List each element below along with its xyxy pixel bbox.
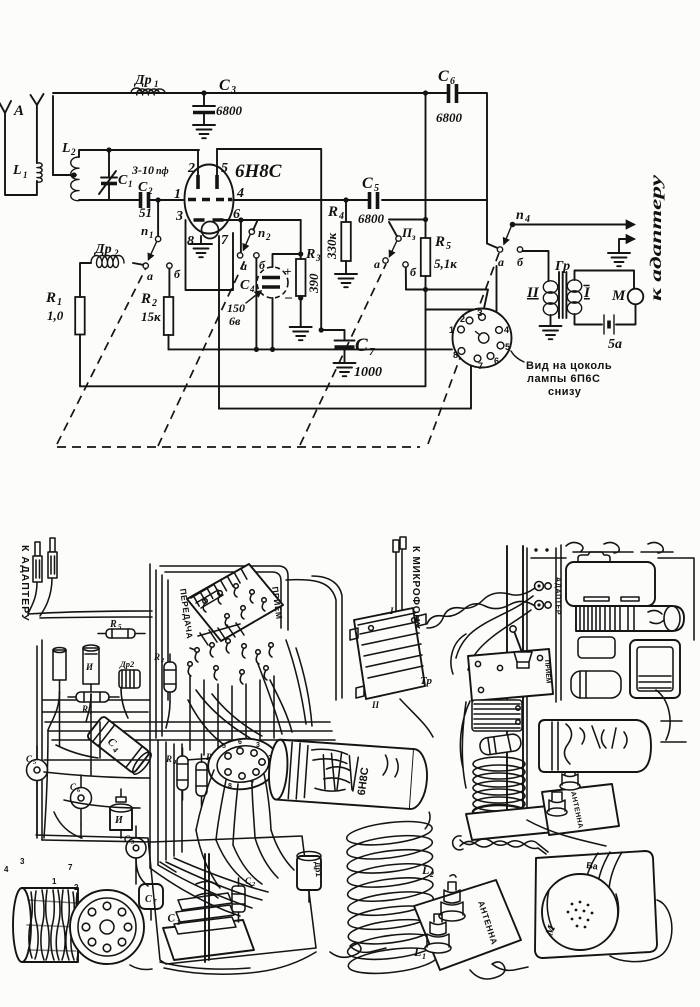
svg-text:6: 6 xyxy=(238,739,242,746)
trimmer C1 xyxy=(99,150,169,200)
wire rail R1-R5 xyxy=(80,290,426,386)
earphone M xyxy=(611,288,643,304)
svg-text:8: 8 xyxy=(453,350,458,360)
box far right xyxy=(630,640,680,698)
wire rail heater xyxy=(219,362,471,409)
battery B 5a xyxy=(604,315,622,352)
svg-text:6800: 6800 xyxy=(216,103,243,118)
wire M loop right xyxy=(610,900,672,962)
svg-text:3: 3 xyxy=(20,857,25,866)
svg-text:5: 5 xyxy=(374,183,379,194)
tube 6N8S pictorial xyxy=(267,739,429,810)
capacitor tube cap B (I) xyxy=(83,645,99,694)
adapter plug 2 xyxy=(48,538,57,578)
wire pin4 line xyxy=(233,199,487,201)
socket flange 6P6S xyxy=(70,890,144,964)
wire pin5 anode rail xyxy=(217,149,321,330)
svg-text:Гр: Гр xyxy=(554,259,570,274)
svg-text:а: а xyxy=(147,269,153,283)
right misc wires xyxy=(451,634,670,846)
svg-text:II: II xyxy=(371,700,380,710)
wire adapter pair run xyxy=(28,611,152,618)
svg-text:L: L xyxy=(61,141,71,156)
wire antenna plate tail xyxy=(470,962,528,979)
svg-text:5: 5 xyxy=(118,623,122,631)
svg-text:R: R xyxy=(305,247,315,262)
svg-text:n: n xyxy=(516,208,524,223)
label socket view xyxy=(511,351,612,398)
toggle switch xyxy=(510,626,532,668)
transformer Gr winding I xyxy=(567,280,591,314)
resistor R4 pictorial xyxy=(165,748,188,800)
svg-text:б: б xyxy=(410,265,417,279)
wire jack sweep extra xyxy=(456,596,533,670)
svg-text:C: C xyxy=(219,77,230,94)
wire Gr-I to M xyxy=(575,271,635,290)
switch plate xyxy=(187,564,283,641)
svg-text:Др2: Др2 xyxy=(119,659,135,669)
choke Dr1 pictorial xyxy=(297,852,323,903)
chassis mid lines xyxy=(36,752,316,964)
wires mid density xyxy=(188,640,312,752)
tube 6P6S pictorial xyxy=(13,888,79,962)
node pin1 xyxy=(156,197,161,202)
ground under tube xyxy=(190,244,212,257)
svg-text:2: 2 xyxy=(70,147,76,157)
svg-text:2: 2 xyxy=(147,186,153,196)
wire pin7 down xyxy=(218,236,220,409)
solenoid coil right xyxy=(473,757,525,819)
tube 6P6S hatched right xyxy=(576,606,684,631)
svg-text:6800: 6800 xyxy=(358,211,385,226)
resistor R5 xyxy=(421,93,457,290)
bracket plate xyxy=(468,649,553,701)
wire to socket pin3 xyxy=(406,290,488,314)
svg-text:C: C xyxy=(362,175,373,192)
node R5 bottom xyxy=(423,287,428,292)
coil L2 spiral xyxy=(331,812,449,978)
arrow adapter-gnd xyxy=(619,239,634,252)
svg-text:б: б xyxy=(174,267,181,281)
node top-C3 xyxy=(201,90,206,95)
node R5 top xyxy=(423,217,428,222)
microphone unit M box xyxy=(535,851,657,958)
wire R1 bottom xyxy=(79,335,81,387)
transformer Gr winding II xyxy=(526,281,558,315)
svg-text:Др: Др xyxy=(93,242,112,257)
wire n4b to Gr xyxy=(523,251,549,281)
svg-text:1000: 1000 xyxy=(354,365,382,380)
wire bundle verticals xyxy=(150,564,168,740)
svg-text:7: 7 xyxy=(369,346,375,358)
svg-text:3: 3 xyxy=(175,209,183,224)
svg-text:АДАПТЕР: АДАПТЕР xyxy=(554,577,561,615)
neon lamp I pictorial xyxy=(110,789,132,830)
wire to socket pin4 xyxy=(496,266,498,313)
wire pin8 ground stub xyxy=(200,236,202,243)
svg-text:б: б xyxy=(517,255,524,269)
svg-text:R: R xyxy=(45,290,56,306)
svg-text:2: 2 xyxy=(74,883,79,892)
svg-text:R: R xyxy=(109,619,117,630)
socket view circle xyxy=(449,308,512,371)
wire L2 top rail xyxy=(79,150,199,157)
PICTORIAL-BOTTOM xyxy=(4,537,694,979)
capacitor C3 xyxy=(193,77,243,124)
insulator right 2 xyxy=(547,792,567,816)
capacitor cylinder right xyxy=(479,733,522,756)
svg-text:8: 8 xyxy=(228,783,232,790)
motion dashes xyxy=(661,721,686,742)
svg-text:1: 1 xyxy=(52,877,57,886)
switch n4 xyxy=(497,208,634,269)
svg-text:8: 8 xyxy=(187,234,194,249)
hatch strip 2 xyxy=(198,623,244,645)
wire extra left runs xyxy=(44,722,150,838)
transformer Tr xyxy=(350,606,432,710)
node R4 top xyxy=(343,197,348,202)
svg-text:C: C xyxy=(355,335,368,356)
svg-text:Др1: Др1 xyxy=(313,862,323,878)
svg-text:4: 4 xyxy=(249,284,255,294)
wire pin6 to n2a xyxy=(240,220,242,252)
wires bottom mid density xyxy=(196,830,294,888)
resistor R2 xyxy=(140,291,173,335)
svg-text:5: 5 xyxy=(221,161,228,176)
svg-text:С: С xyxy=(70,782,77,792)
panel clips top xyxy=(566,542,673,553)
svg-text:390: 390 xyxy=(306,273,321,294)
wire Tr tail xyxy=(400,699,433,737)
svg-text:лампы 6П6С: лампы 6П6С xyxy=(527,373,600,385)
base plate right coil xyxy=(466,806,554,840)
svg-text:15к: 15к xyxy=(141,309,161,324)
insulator right 1 xyxy=(560,766,580,790)
wire twisted pair to M xyxy=(460,839,548,854)
svg-text:2: 2 xyxy=(265,232,271,242)
svg-text:2: 2 xyxy=(113,248,119,258)
wire curl at bracket xyxy=(453,836,463,850)
svg-text:II: II xyxy=(526,285,540,301)
jack pair xyxy=(535,582,552,610)
svg-text:з: з xyxy=(411,232,416,242)
wire bottom curl xyxy=(330,943,386,957)
wires mid left xyxy=(48,688,170,730)
svg-text:З: З xyxy=(477,308,483,318)
svg-text:6800: 6800 xyxy=(436,110,463,125)
tube 6N8S right view xyxy=(539,720,651,772)
svg-text:C: C xyxy=(118,173,128,188)
wire top rail xyxy=(53,93,498,248)
wire B-plus to socket xyxy=(426,309,491,311)
svg-text:3: 3 xyxy=(230,85,236,96)
tube socket 6N8S left view xyxy=(205,734,281,793)
svg-text:+: + xyxy=(284,264,291,279)
svg-text:2: 2 xyxy=(151,298,157,309)
wire plug leads xyxy=(28,578,52,616)
svg-text:C: C xyxy=(240,278,250,293)
twisted wire from jacks xyxy=(427,588,535,628)
svg-text:И: И xyxy=(114,815,124,826)
svg-text:1: 1 xyxy=(149,230,154,240)
wire C4 plus xyxy=(273,254,301,267)
svg-text:к адаптеру: к адаптеру xyxy=(648,174,665,301)
svg-text:3-10: 3-10 xyxy=(131,163,154,177)
dashed gang line 1 xyxy=(57,268,146,444)
svg-text:1,0: 1,0 xyxy=(47,308,64,323)
svg-text:1: 1 xyxy=(174,187,181,202)
svg-text:1: 1 xyxy=(23,170,28,180)
tube grid dashes xyxy=(188,198,232,202)
dashed gang baseline xyxy=(57,446,420,448)
svg-text:4: 4 xyxy=(4,865,9,874)
node R3 bottom xyxy=(298,295,303,300)
capacitor C7 pictorial xyxy=(139,884,163,909)
wire pin6 to R3 xyxy=(224,219,301,221)
svg-text:М: М xyxy=(611,288,626,304)
svg-text:C: C xyxy=(138,180,148,195)
svg-text:I: I xyxy=(583,285,591,301)
tube anode bars xyxy=(198,175,217,189)
mid boxes right xyxy=(578,637,615,658)
tube U1 6N8S envelope xyxy=(185,165,234,234)
svg-text:150: 150 xyxy=(227,301,245,315)
wire n1b to R2 xyxy=(168,268,170,297)
svg-text:2: 2 xyxy=(460,314,465,324)
antenna plate right xyxy=(542,784,619,835)
wires from socket down xyxy=(196,770,271,845)
svg-text:а: а xyxy=(498,255,504,269)
chassis bottom edges xyxy=(130,952,316,974)
svg-text:6: 6 xyxy=(450,76,455,87)
capacitor C7 xyxy=(321,330,382,380)
capacitor C2 pictorial xyxy=(232,876,256,922)
svg-text:1: 1 xyxy=(422,952,426,961)
svg-text:6: 6 xyxy=(494,356,499,366)
svg-text:5: 5 xyxy=(222,743,226,750)
svg-text:R: R xyxy=(165,754,172,764)
svg-text:I: I xyxy=(389,606,394,616)
svg-text:4: 4 xyxy=(504,325,509,335)
wire R2 bottom xyxy=(168,335,170,349)
battery box right top xyxy=(534,548,655,606)
capacitor C6 xyxy=(436,68,463,125)
svg-text:С: С xyxy=(26,754,33,764)
svg-text:A: A xyxy=(13,103,24,119)
resistor R1 pictorial xyxy=(68,692,119,716)
transformer Gr core xyxy=(554,259,570,318)
svg-text:7: 7 xyxy=(221,233,229,248)
capacitor C6 pictorial xyxy=(70,775,92,824)
ground under R4 xyxy=(335,274,357,287)
svg-text:L: L xyxy=(413,945,421,959)
SCHEMATIC-TOP xyxy=(0,68,665,447)
switch lugs row1 xyxy=(203,584,267,627)
wire Gr-II to ground xyxy=(550,315,552,325)
antenna plate left xyxy=(414,880,521,970)
capacitor C4 electrolytic xyxy=(227,264,293,328)
tube cathode bars xyxy=(194,218,224,222)
wire rail cathode xyxy=(169,348,453,350)
wire C4 minus down xyxy=(272,298,274,349)
resistor R1 xyxy=(45,290,85,335)
ground under Gr xyxy=(540,326,562,339)
wires upper mid join xyxy=(286,576,342,700)
dashed gang line 3 xyxy=(300,264,386,445)
wire R3 top xyxy=(300,220,302,259)
wire long diagonals mid xyxy=(150,858,268,916)
node top-R5line xyxy=(423,90,428,95)
svg-text:5,1к: 5,1к xyxy=(434,256,457,271)
capacitor C5 xyxy=(358,175,385,226)
svg-text:1: 1 xyxy=(57,297,62,308)
svg-text:51: 51 xyxy=(139,205,152,220)
coil L2 xyxy=(61,141,79,201)
wire n2b down xyxy=(255,258,257,349)
wire Gr-I bottom to battery xyxy=(575,314,603,325)
capacitor C3 pictorial xyxy=(124,826,146,870)
resistor R5 pictorial xyxy=(98,619,145,638)
svg-text:Вид на цоколь: Вид на цоколь xyxy=(526,360,612,372)
svg-text:4: 4 xyxy=(338,211,344,222)
choke Dr2 xyxy=(80,242,143,297)
svg-text:R: R xyxy=(153,652,160,662)
wires row to socket xyxy=(190,676,274,755)
resistor R4 xyxy=(324,200,351,273)
node pin6 xyxy=(238,217,243,222)
capacitor tube cap A xyxy=(53,648,66,693)
microphone wires xyxy=(374,537,406,664)
wire pin2 up xyxy=(198,149,217,175)
variable capacitor C1 xyxy=(163,854,254,962)
switch P3 xyxy=(374,220,426,290)
svg-text:C: C xyxy=(438,68,449,85)
right panel top edges xyxy=(531,558,694,640)
svg-text:1: 1 xyxy=(128,179,133,189)
svg-text:5: 5 xyxy=(505,342,510,352)
svg-text:R: R xyxy=(327,204,338,220)
capacitor C5 pictorial xyxy=(26,746,48,800)
dashed gang line 4 xyxy=(428,253,499,444)
insulator 1 xyxy=(439,875,465,921)
svg-text:4: 4 xyxy=(236,186,244,201)
svg-text:пф: пф xyxy=(156,166,169,177)
ground under C3 xyxy=(193,125,215,138)
svg-text:И: И xyxy=(85,662,94,672)
svg-text:4: 4 xyxy=(524,214,530,225)
svg-text:L: L xyxy=(12,163,22,178)
svg-text:330к: 330к xyxy=(324,233,339,261)
capacitor C4 pictorial big xyxy=(86,715,154,776)
tube heater circle xyxy=(202,222,219,239)
coil L1 xyxy=(12,163,42,182)
svg-text:R: R xyxy=(434,234,445,250)
svg-text:снизу: снизу xyxy=(548,386,582,398)
svg-text:Др: Др xyxy=(133,73,152,88)
svg-text:5: 5 xyxy=(446,241,451,252)
svg-text:R: R xyxy=(81,704,88,714)
wire battery to M xyxy=(616,305,636,325)
wire loop around switch xyxy=(160,566,288,630)
svg-text:6Н8С: 6Н8С xyxy=(235,161,282,182)
svg-text:6в: 6в xyxy=(229,314,241,328)
right panel verticals xyxy=(507,546,523,828)
pin digits xyxy=(4,857,79,892)
svg-text:2: 2 xyxy=(429,870,434,879)
svg-text:1: 1 xyxy=(449,325,454,335)
dashed gang line 2 xyxy=(158,260,245,446)
svg-text:Тр: Тр xyxy=(420,675,432,687)
svg-text:7: 7 xyxy=(68,863,73,872)
insulator 2 xyxy=(425,914,451,953)
ground under C7 xyxy=(334,363,356,376)
ground at adapter arrow xyxy=(608,253,630,266)
switch lugs row2 xyxy=(188,639,274,684)
wire L2 bottom rail xyxy=(79,199,183,201)
ground under R3 xyxy=(290,327,312,340)
wire left area runs xyxy=(37,640,335,840)
relay box xyxy=(472,700,522,731)
microphone M face xyxy=(542,860,619,950)
svg-text:L: L xyxy=(421,863,429,877)
choke Dr2 pictorial xyxy=(119,659,140,688)
svg-text:1: 1 xyxy=(154,79,159,89)
node L2 tap xyxy=(71,172,76,177)
svg-text:С: С xyxy=(124,834,131,844)
svg-text:−: − xyxy=(284,291,293,307)
svg-text:3: 3 xyxy=(315,253,321,263)
svg-text:R: R xyxy=(140,291,151,307)
adapter plug 1 xyxy=(33,542,42,582)
svg-text:2: 2 xyxy=(187,161,195,176)
svg-text:n: n xyxy=(141,223,148,238)
switch n2 xyxy=(237,222,271,274)
svg-text:3: 3 xyxy=(256,742,260,749)
svg-text:7: 7 xyxy=(478,361,483,371)
node anode-C7 xyxy=(319,327,324,332)
node C1 top xyxy=(106,147,111,152)
resistor R3 pictorial xyxy=(196,752,217,806)
svg-text:5а: 5а xyxy=(608,337,622,352)
resistor R3 xyxy=(296,247,321,296)
switch n1 xyxy=(141,200,181,283)
resistor R2 pictorial xyxy=(153,652,176,702)
choke Dr1 xyxy=(131,73,165,95)
svg-text:n: n xyxy=(258,225,265,240)
capacitor C2 xyxy=(138,180,153,220)
svg-text:а: а xyxy=(374,257,380,271)
antenna A xyxy=(0,94,44,195)
svg-text:С: С xyxy=(145,894,152,905)
wire bundle to bottom xyxy=(150,740,182,868)
wires bottom left joins xyxy=(37,692,176,920)
wire cathode loop pin3-pin7 xyxy=(186,220,234,290)
